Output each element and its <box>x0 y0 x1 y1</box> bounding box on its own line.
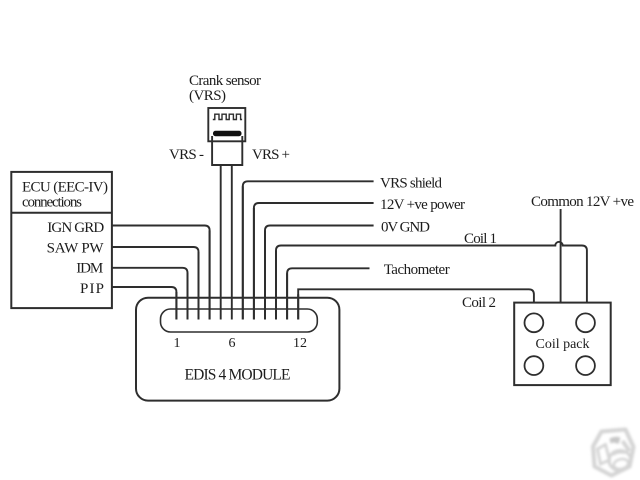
wire VRS shield from pin7 <box>243 181 374 319</box>
coil pack tower bottom-right <box>576 356 595 375</box>
svg-text:IGN GRD: IGN GRD <box>47 220 104 236</box>
svg-text:IDM: IDM <box>76 261 103 277</box>
wire VRS+ sensor to pin6 <box>231 165 233 320</box>
svg-text:Common 12V +ve: Common 12V +ve <box>531 194 634 210</box>
svg-text:Coil 2: Coil 2 <box>462 295 496 311</box>
crank sensor square wave <box>213 114 242 119</box>
svg-text:Coil 1: Coil 1 <box>464 231 497 247</box>
svg-text:1: 1 <box>174 336 181 351</box>
svg-text:VRS shield: VRS shield <box>380 176 443 192</box>
coil pack box <box>514 303 611 386</box>
connector pins 1-12 <box>176 186 298 319</box>
svg-text:SAW PW: SAW PW <box>47 241 105 257</box>
svg-text:Tachometer: Tachometer <box>384 262 450 278</box>
crank sensor lower box <box>212 136 242 165</box>
svg-text:VRS -: VRS - <box>169 147 204 163</box>
svg-text:(VRS): (VRS) <box>189 88 226 104</box>
svg-text:VRS +: VRS + <box>252 147 290 163</box>
svg-text:connections: connections <box>22 195 82 211</box>
crank sensor outer box <box>208 108 245 141</box>
svg-text:ECU (EEC-IV): ECU (EEC-IV) <box>22 180 108 196</box>
svg-text:0V GND: 0V GND <box>381 220 430 236</box>
svg-text:EDIS 4 MODULE: EDIS 4 MODULE <box>185 367 291 384</box>
wire Coil 1 from pin10 to coil pack with hop <box>276 242 587 320</box>
svg-text:PIP: PIP <box>80 281 104 297</box>
svg-text:12V +ve power: 12V +ve power <box>380 197 465 213</box>
wire 12V +ve power from pin8 <box>254 203 374 320</box>
wire VRS- sensor to pin5 <box>220 165 222 320</box>
wire Common 12V +ve to coil pack <box>560 209 562 303</box>
wire IGN GRD to pin4 <box>112 226 210 320</box>
EDIS module outer box <box>136 298 339 401</box>
svg-text:12: 12 <box>293 336 307 351</box>
wire Tachometer from pin11 <box>287 268 369 319</box>
wire IDM to pin2 <box>112 268 188 320</box>
wire SAW PW to pin3 <box>112 247 199 320</box>
coil pack tower top-right <box>576 313 595 332</box>
coil pack tower bottom-left <box>525 356 544 375</box>
coil pack tower top-left <box>525 313 544 332</box>
EDIS connector inner box <box>161 309 318 332</box>
crank sensor black bar <box>213 131 242 136</box>
wire 0V GND from pin9 <box>265 226 374 320</box>
svg-text:6: 6 <box>229 336 236 351</box>
wire Coil 2 from pin12 to coil pack <box>298 289 534 319</box>
ECU divider line <box>11 212 112 214</box>
svg-text:Crank sensor: Crank sensor <box>189 73 261 89</box>
wire PIP to pin1 <box>112 287 176 320</box>
ECU box <box>11 172 112 308</box>
svg-text:Coil pack: Coil pack <box>536 337 590 352</box>
